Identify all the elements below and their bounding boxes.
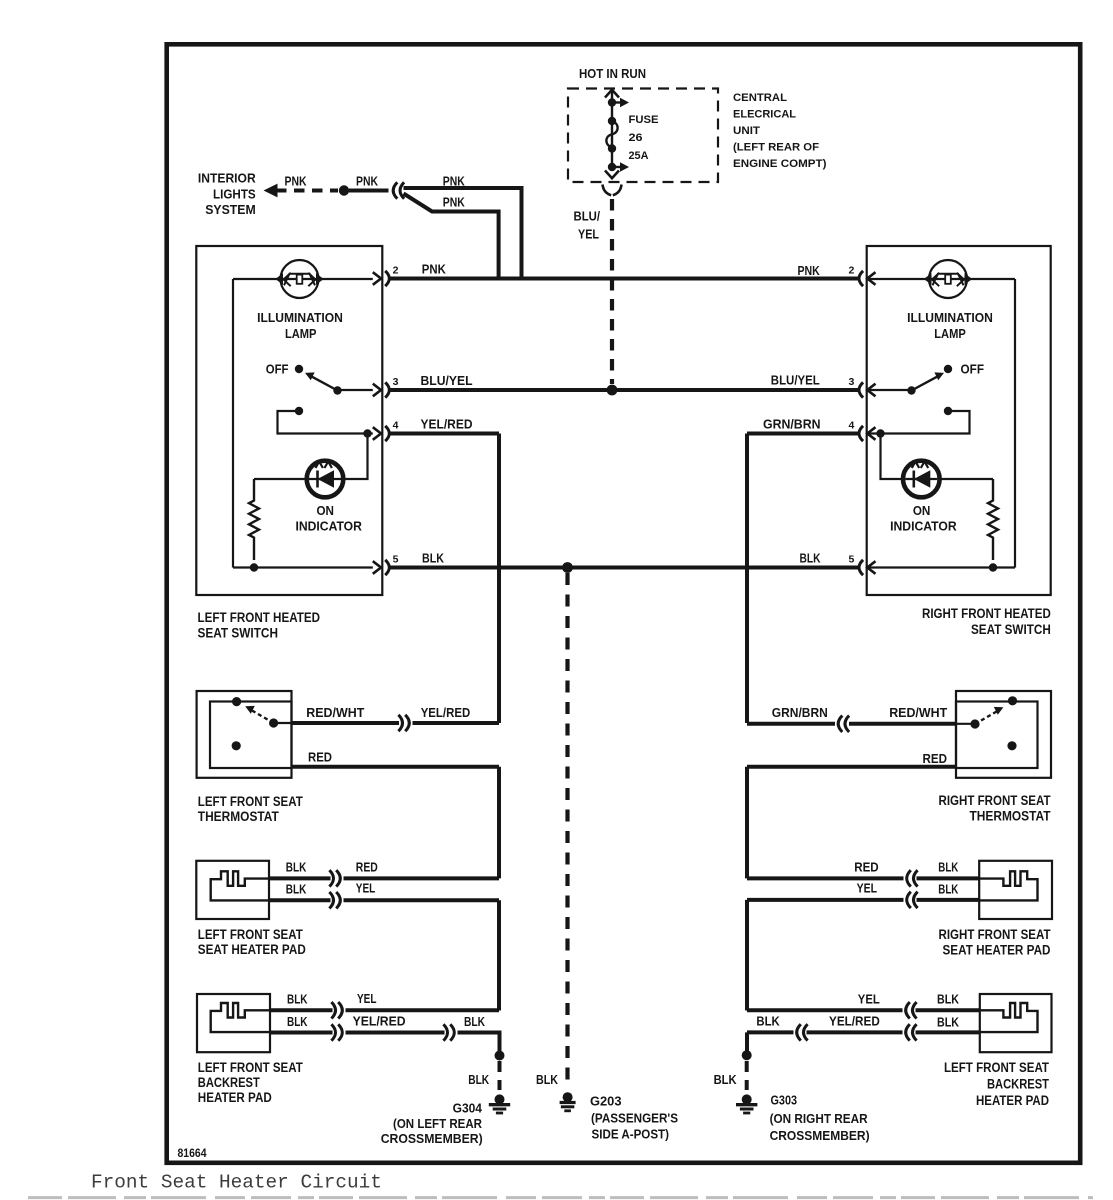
svg-text:G304: G304	[453, 1101, 483, 1116]
thermostat contact lower (left)	[232, 741, 241, 750]
label BLK (left pad bottom)	[286, 882, 307, 897]
label BLK (left pad top)	[286, 860, 307, 875]
svg-text:ENGINE COMPT): ENGINE COMPT)	[733, 158, 827, 170]
pin 3 (left switch)	[373, 376, 399, 398]
pin 4 (left switch)	[373, 419, 399, 441]
switch off contact (right)	[944, 365, 952, 373]
svg-text:2: 2	[393, 264, 399, 276]
svg-text:YEL/RED: YEL/RED	[421, 705, 471, 720]
svg-text:ON: ON	[913, 503, 931, 518]
wire lamp (left)	[233, 278, 373, 280]
svg-text:YEL/RED: YEL/RED	[829, 1014, 880, 1029]
wire PNK dashed	[276, 189, 338, 193]
label YEL/RED (left thermostat)	[421, 705, 471, 720]
label RED (left)	[308, 750, 332, 765]
on indicator LED (left)	[307, 461, 344, 498]
label YEL (right backrest)	[858, 992, 880, 1007]
wire bottom internal (left)	[233, 566, 373, 568]
wire inner vertical (left)	[232, 279, 234, 568]
wire lamp (right)	[867, 278, 1015, 280]
in-line connector top (right pad)	[907, 870, 918, 886]
wire YEL/RED pin4 (left)	[391, 432, 500, 436]
label RED (right pad)	[854, 860, 879, 875]
svg-text:SEAT SWITCH: SEAT SWITCH	[971, 622, 1051, 637]
wire BLK to G303	[747, 1032, 794, 1052]
label RIGHT FRONT SEAT THERMOSTAT	[939, 793, 1052, 824]
connector below fuse box	[603, 185, 622, 196]
wire BLK bottom (left backrest)	[270, 1031, 333, 1035]
pin 3 (right switch)	[849, 376, 876, 398]
border frame	[167, 44, 1080, 1163]
label BLK (right pad bottom)	[938, 882, 958, 897]
label BLU/YEL (right pin 3)	[771, 373, 820, 388]
label ON INDICATOR (right)	[890, 503, 957, 534]
svg-text:YEL: YEL	[578, 227, 599, 242]
left front seat thermostat box	[197, 691, 292, 778]
label LEFT FRONT SEAT BACKREST HEATER PAD (right)	[944, 1060, 1050, 1108]
wire RED trunk down (right)	[745, 767, 749, 879]
svg-text:PNK: PNK	[422, 261, 447, 276]
label YEL (right pad)	[857, 881, 877, 896]
heater element (left seat pad)	[211, 871, 269, 900]
in-line connector top (left pad)	[329, 870, 340, 886]
wire BLK dashed to G203	[565, 573, 569, 1089]
junction dot BLU/YEL	[607, 385, 618, 396]
resistor (right)	[988, 479, 998, 560]
central electrical unit (dashed box)	[568, 89, 718, 183]
svg-text:4: 4	[393, 419, 399, 431]
wire BLK bottom (right backrest)	[916, 1030, 980, 1034]
svg-text:LEFT FRONT HEATED: LEFT FRONT HEATED	[198, 610, 321, 625]
thermostat blade (right)	[975, 707, 1003, 724]
label YEL/RED (left backrest)	[353, 1013, 406, 1028]
label BLK (G304 drop)	[468, 1072, 489, 1087]
label BLK (left backrest top)	[287, 992, 308, 1007]
in-line connector top (right backrest)	[906, 1002, 917, 1018]
wire thermostat internal (left)	[274, 722, 292, 724]
wire BLK top (right pad)	[917, 876, 980, 880]
svg-text:BLK: BLK	[937, 1015, 960, 1030]
svg-text:RIGHT FRONT HEATED: RIGHT FRONT HEATED	[922, 606, 1051, 621]
resistor (left)	[249, 479, 259, 560]
svg-text:ILLUMINATION: ILLUMINATION	[257, 310, 343, 325]
label LEFT FRONT SEAT SEAT HEATER PAD	[198, 927, 306, 957]
svg-text:ELECRICAL: ELECRICAL	[733, 109, 796, 121]
wire RED/WHT (right)	[849, 722, 956, 726]
svg-text:YEL: YEL	[857, 881, 877, 896]
label PNK (lower branch)	[443, 195, 465, 210]
svg-text:RED: RED	[854, 860, 879, 875]
svg-text:RIGHT FRONT SEAT: RIGHT FRONT SEAT	[939, 793, 1052, 808]
thermostat contact common (right)	[970, 719, 979, 728]
wire inner vertical (right)	[1014, 279, 1016, 568]
label PNK (left pin 2)	[422, 261, 447, 276]
wire BLU/YEL bus pin3-pin3	[391, 388, 859, 392]
svg-text:FUSE: FUSE	[629, 114, 659, 126]
left front heated seat switch box	[196, 246, 382, 595]
svg-text:LAMP: LAMP	[934, 326, 966, 341]
in-line connector 2 bottom (left backrest)	[443, 1024, 454, 1040]
wire PNK bus pin2-pin2	[391, 277, 859, 281]
wire YEL to trunk (left pad)	[344, 898, 500, 902]
label RIGHT FRONT SEAT SEAT HEATER PAD	[939, 927, 1052, 958]
wire YEL/RED (right backrest)	[807, 1030, 903, 1034]
svg-text:RED/WHT: RED/WHT	[306, 705, 364, 720]
svg-text:SYSTEM: SYSTEM	[205, 202, 256, 217]
svg-text:BLK: BLK	[422, 550, 445, 565]
svg-text:BACKREST: BACKREST	[198, 1075, 261, 1090]
wire GRN/BRN to trunk (right)	[747, 722, 835, 726]
label PNK (right pin 2)	[798, 263, 821, 278]
heater element (right backrest pad)	[980, 1003, 1038, 1032]
svg-text:25A: 25A	[629, 150, 649, 162]
junction dot pin4 branch (left)	[363, 429, 371, 437]
svg-text:RED: RED	[356, 860, 378, 875]
svg-text:RED/WHT: RED/WHT	[889, 705, 947, 720]
thermostat contact lower (right)	[1007, 741, 1016, 750]
pin 2 (right switch)	[849, 264, 876, 286]
label YEL (left pad)	[356, 881, 376, 896]
label CENTRAL ELECRICAL UNIT	[733, 92, 827, 170]
switch blade (left)	[305, 372, 338, 390]
arrow to interior lights system	[264, 184, 278, 198]
svg-text:THERMOSTAT: THERMOSTAT	[198, 809, 280, 824]
svg-text:SIDE A-POST): SIDE A-POST)	[592, 1127, 670, 1142]
svg-text:LEFT FRONT SEAT: LEFT FRONT SEAT	[944, 1060, 1050, 1075]
wire BLK bottom (left pad)	[269, 898, 331, 902]
label G304 (ON LEFT REAR CROSSMEMBER)	[381, 1101, 483, 1146]
junction dot pin4 branch (right)	[876, 429, 884, 437]
svg-text:BLU/YEL: BLU/YEL	[771, 373, 820, 388]
wire bottom internal (right)	[867, 566, 1015, 568]
wire LED to resistor (left)	[254, 478, 307, 480]
pin 5 (left switch)	[373, 553, 399, 575]
fuse 26 25A	[605, 90, 629, 178]
svg-text:BLK: BLK	[938, 882, 958, 897]
switch blade (right)	[912, 372, 945, 390]
svg-text:YEL: YEL	[858, 992, 880, 1007]
label LEFT FRONT HEATED SEAT SWITCH	[198, 610, 321, 641]
svg-text:YEL/RED: YEL/RED	[421, 416, 473, 431]
in-line connector YEL/RED (left)	[398, 715, 409, 731]
label ON INDICATOR (left)	[295, 503, 362, 534]
svg-text:LEFT FRONT SEAT: LEFT FRONT SEAT	[198, 1060, 304, 1075]
wire pole2 to pin4 (right)	[867, 411, 969, 434]
svg-text:BLK: BLK	[938, 860, 958, 875]
ground G304	[489, 1094, 510, 1113]
svg-text:ILLUMINATION: ILLUMINATION	[907, 310, 993, 325]
label LEFT FRONT SEAT THERMOSTAT	[198, 794, 304, 824]
svg-text:YEL: YEL	[356, 881, 376, 896]
junction dot	[339, 185, 349, 195]
pin 4 (right switch)	[849, 419, 876, 441]
label HOT IN RUN	[579, 66, 646, 81]
label BLU/ YEL	[574, 209, 601, 242]
label RED/WHT (left)	[306, 705, 364, 720]
svg-text:4: 4	[849, 419, 855, 431]
svg-text:G203: G203	[590, 1094, 622, 1109]
svg-text:PNK: PNK	[285, 174, 307, 189]
svg-text:BLK: BLK	[287, 992, 308, 1007]
wire RED trunk down (left)	[497, 767, 501, 879]
label YEL (left backrest)	[357, 991, 377, 1006]
switch pole 2 contact (left)	[295, 407, 303, 415]
svg-text:LAMP: LAMP	[285, 326, 317, 341]
pin 2 (left switch)	[373, 264, 399, 286]
svg-text:(ON RIGHT REAR: (ON RIGHT REAR	[770, 1111, 869, 1126]
illumination lamp (left)	[275, 260, 323, 298]
label BLK (to G304)	[464, 1014, 485, 1029]
junction dot resistor (right)	[989, 563, 997, 571]
svg-text:ON: ON	[316, 503, 334, 518]
svg-text:RIGHT FRONT SEAT: RIGHT FRONT SEAT	[939, 927, 1052, 942]
svg-text:YEL: YEL	[357, 991, 377, 1006]
svg-text:3: 3	[849, 376, 855, 388]
switch off contact (left)	[295, 365, 303, 373]
wire BLU/YEL dashed from fuse	[610, 199, 614, 384]
ground G303	[736, 1094, 757, 1113]
label BLK (right pad top)	[938, 860, 958, 875]
svg-text:BLK: BLK	[468, 1072, 489, 1087]
label G203 (PASSENGER'S SIDE A-POST)	[590, 1094, 678, 1142]
right front seat backrest heater pad box	[980, 994, 1052, 1052]
wire PNK lower branch	[404, 194, 499, 279]
svg-text:PNK: PNK	[798, 263, 821, 278]
junction dot resistor (left)	[250, 563, 258, 571]
svg-text:OFF: OFF	[961, 362, 985, 377]
label BLU/YEL (left pin 3)	[421, 373, 473, 388]
svg-text:26: 26	[629, 132, 643, 144]
label OFF (left)	[266, 362, 289, 377]
heater element (left backrest pad)	[211, 1003, 270, 1032]
label GRN/BRN (right pin 4)	[763, 416, 821, 431]
label RED/WHT (right)	[889, 705, 947, 720]
label BLK (G303 drop)	[714, 1072, 738, 1087]
junction dot G304	[495, 1051, 505, 1061]
in-line connector top (left backrest)	[331, 1002, 342, 1018]
ground G203	[560, 1092, 576, 1111]
label RIGHT FRONT HEATED SEAT SWITCH	[922, 606, 1051, 637]
svg-text:3: 3	[393, 376, 399, 388]
label FUSE 26 25A	[629, 114, 659, 162]
svg-text:5: 5	[849, 553, 855, 565]
label BLK (left pin 5)	[422, 550, 445, 565]
wire BLK dashed to G304	[498, 1061, 502, 1090]
svg-text:G303: G303	[771, 1093, 798, 1108]
label PNK (solid segment)	[356, 174, 378, 189]
svg-text:BACKREST: BACKREST	[987, 1077, 1050, 1092]
in-line connector bottom (right pad)	[907, 892, 918, 908]
thermostat contact top (left)	[232, 697, 241, 706]
wire RED to trunk (left pad)	[344, 876, 500, 880]
svg-text:RED: RED	[923, 751, 948, 766]
svg-text:Front Seat Heater Circuit: Front Seat Heater Circuit	[91, 1172, 382, 1194]
in-line connector bottom (left pad)	[329, 892, 340, 908]
label RED (right)	[923, 751, 948, 766]
wire YEL trunk down (left)	[497, 900, 501, 1010]
junction dot G303	[742, 1050, 752, 1060]
svg-text:BLK: BLK	[536, 1072, 559, 1087]
svg-text:PNK: PNK	[443, 195, 465, 210]
switch common contact (left)	[333, 386, 341, 394]
svg-text:LEFT FRONT SEAT: LEFT FRONT SEAT	[198, 794, 304, 809]
svg-text:PNK: PNK	[443, 174, 465, 189]
svg-text:INDICATOR: INDICATOR	[295, 519, 362, 534]
wire RED (right)	[747, 765, 956, 769]
illumination lamp (right)	[924, 260, 972, 298]
svg-text:YEL/RED: YEL/RED	[353, 1013, 406, 1028]
caption Front Seat Heater Circuit	[91, 1172, 382, 1194]
wire YEL/RED trunk down (left)	[497, 434, 501, 724]
wire YEL to trunk (right backrest)	[747, 1008, 903, 1012]
thermostat blade (left)	[245, 706, 273, 723]
label BLK (right backrest top)	[937, 992, 960, 1007]
wire BLK dashed to G303	[745, 1061, 749, 1090]
svg-text:INDICATOR: INDICATOR	[890, 519, 957, 534]
svg-text:RED: RED	[308, 750, 332, 765]
svg-text:BLK: BLK	[286, 882, 307, 897]
switch common contact (right)	[907, 386, 915, 394]
wire BLK bottom (right pad)	[917, 898, 980, 902]
svg-text:SEAT SWITCH: SEAT SWITCH	[198, 626, 279, 641]
wire YEL to trunk (left backrest)	[346, 1008, 500, 1012]
svg-text:CROSSMEMBER): CROSSMEMBER)	[381, 1131, 483, 1146]
svg-text:BLK: BLK	[937, 992, 960, 1007]
wire YEL trunk down (right)	[745, 900, 749, 1011]
label YEL/RED (left pin 4)	[421, 416, 473, 431]
svg-text:BLU/YEL: BLU/YEL	[421, 373, 473, 388]
thermostat contact common (left)	[269, 718, 278, 727]
left front seat seat heater pad box	[196, 861, 269, 919]
svg-text:(ON LEFT REAR: (ON LEFT REAR	[393, 1116, 483, 1131]
svg-text:HEATER PAD: HEATER PAD	[198, 1090, 272, 1105]
svg-text:HOT IN RUN: HOT IN RUN	[579, 66, 646, 81]
in-line connector bottom (right backrest)	[906, 1024, 917, 1040]
svg-text:GRN/BRN: GRN/BRN	[763, 416, 821, 431]
wire YEL to trunk (right pad)	[747, 898, 904, 902]
bottom cropped text row	[28, 1196, 1093, 1199]
svg-text:INTERIOR: INTERIOR	[198, 171, 256, 186]
wire PNK upper branch	[404, 188, 522, 279]
wire LED to resistor (right)	[940, 478, 993, 480]
in-line connector bottom (left backrest)	[331, 1024, 342, 1040]
svg-text:LIGHTS: LIGHTS	[213, 187, 256, 202]
svg-text:UNIT: UNIT	[733, 125, 760, 137]
label 81664	[178, 1148, 208, 1160]
right front seat thermostat box	[956, 691, 1051, 778]
svg-text:81664: 81664	[178, 1148, 208, 1160]
wire PNK to connector	[349, 189, 389, 193]
svg-text:BLK: BLK	[464, 1014, 485, 1029]
in-line connector (interior lights)	[393, 182, 404, 198]
wire pole2 to pin4 (left)	[278, 411, 373, 434]
wire RED/WHT (left)	[292, 721, 400, 725]
svg-text:SEAT HEATER PAD: SEAT HEATER PAD	[943, 943, 1051, 958]
svg-text:LEFT FRONT SEAT: LEFT FRONT SEAT	[198, 927, 304, 942]
thermostat contact top (right)	[1008, 696, 1017, 705]
svg-text:BLK: BLK	[287, 1014, 308, 1029]
svg-text:THERMOSTAT: THERMOSTAT	[970, 809, 1052, 824]
label ILLUMINATION LAMP (left)	[257, 310, 343, 341]
svg-text:2: 2	[849, 264, 855, 276]
svg-text:BLK: BLK	[714, 1072, 738, 1087]
wire LED branch (left)	[344, 434, 368, 480]
label OFF (right)	[961, 362, 985, 377]
label RED (left pad)	[356, 860, 378, 875]
svg-text:BLK: BLK	[756, 1014, 780, 1029]
label GRN/BRN (right thermostat)	[772, 705, 828, 720]
svg-text:(LEFT REAR OF: (LEFT REAR OF	[733, 142, 819, 154]
node INTERIOR LIGHTS SYSTEM	[198, 171, 256, 218]
label PNK (upper branch)	[443, 174, 465, 189]
wire BLK top (left pad)	[269, 876, 331, 880]
label LEFT FRONT SEAT BACKREST HEATER PAD	[198, 1060, 304, 1105]
svg-text:PNK: PNK	[356, 174, 378, 189]
svg-text:(PASSENGER'S: (PASSENGER'S	[591, 1111, 678, 1126]
heater element (right seat pad)	[979, 871, 1037, 900]
svg-text:5: 5	[393, 553, 399, 565]
on indicator LED (right)	[903, 461, 940, 498]
junction dot BLK	[562, 562, 573, 573]
wire BLK top (left backrest)	[270, 1008, 333, 1012]
label BLK (right pin 5)	[800, 550, 821, 565]
wire RED to trunk (right pad)	[747, 876, 904, 880]
wire pin3 internal (right)	[867, 389, 911, 391]
label ILLUMINATION LAMP (right)	[907, 310, 993, 341]
wire BLK to G304	[458, 1033, 500, 1053]
label PNK (dashed segment)	[285, 174, 307, 189]
pin 5 (right switch)	[849, 553, 876, 575]
in-line connector RED/WHT (right)	[838, 716, 849, 732]
svg-text:BLK: BLK	[286, 860, 307, 875]
wire LED branch (right)	[881, 434, 903, 480]
label BLK (right backrest bottom)	[937, 1015, 960, 1030]
svg-text:HEATER PAD: HEATER PAD	[976, 1093, 1049, 1108]
wire GRN/BRN pin4 (right)	[747, 432, 858, 436]
svg-text:BLU/: BLU/	[574, 209, 601, 224]
label YEL/RED (right backrest)	[829, 1014, 880, 1029]
svg-text:CROSSMEMBER): CROSSMEMBER)	[770, 1128, 870, 1143]
svg-text:SEAT HEATER PAD: SEAT HEATER PAD	[198, 942, 306, 957]
svg-text:GRN/BRN: GRN/BRN	[772, 705, 828, 720]
left front seat backrest heater pad box	[197, 994, 270, 1052]
svg-text:CENTRAL: CENTRAL	[733, 92, 787, 104]
right front seat seat heater pad box	[979, 861, 1052, 919]
switch pole 2 contact (right)	[944, 407, 952, 415]
wire BLK bus pin5-pin5	[391, 566, 859, 570]
wire GRN/BRN trunk down (right)	[745, 434, 749, 724]
wire RED (left)	[292, 765, 500, 769]
wire YEL/RED to trunk (left)	[413, 721, 500, 725]
wire thermostat internal (right)	[956, 723, 975, 725]
label BLK (left backrest bottom)	[287, 1014, 308, 1029]
svg-text:OFF: OFF	[266, 362, 289, 377]
label BLK (G203 drop)	[536, 1072, 559, 1087]
in-line connector 2 bottom (right backrest)	[797, 1024, 808, 1040]
wire YEL/RED (left backrest)	[346, 1031, 445, 1035]
svg-text:BLK: BLK	[800, 550, 821, 565]
label G303 (ON RIGHT REAR CROSSMEMBER)	[770, 1093, 870, 1144]
wire pin3 internal (left)	[338, 389, 373, 391]
label BLK (to G303)	[756, 1014, 780, 1029]
right front heated seat switch box	[867, 246, 1051, 595]
wire BLK top (right backrest)	[916, 1008, 980, 1012]
